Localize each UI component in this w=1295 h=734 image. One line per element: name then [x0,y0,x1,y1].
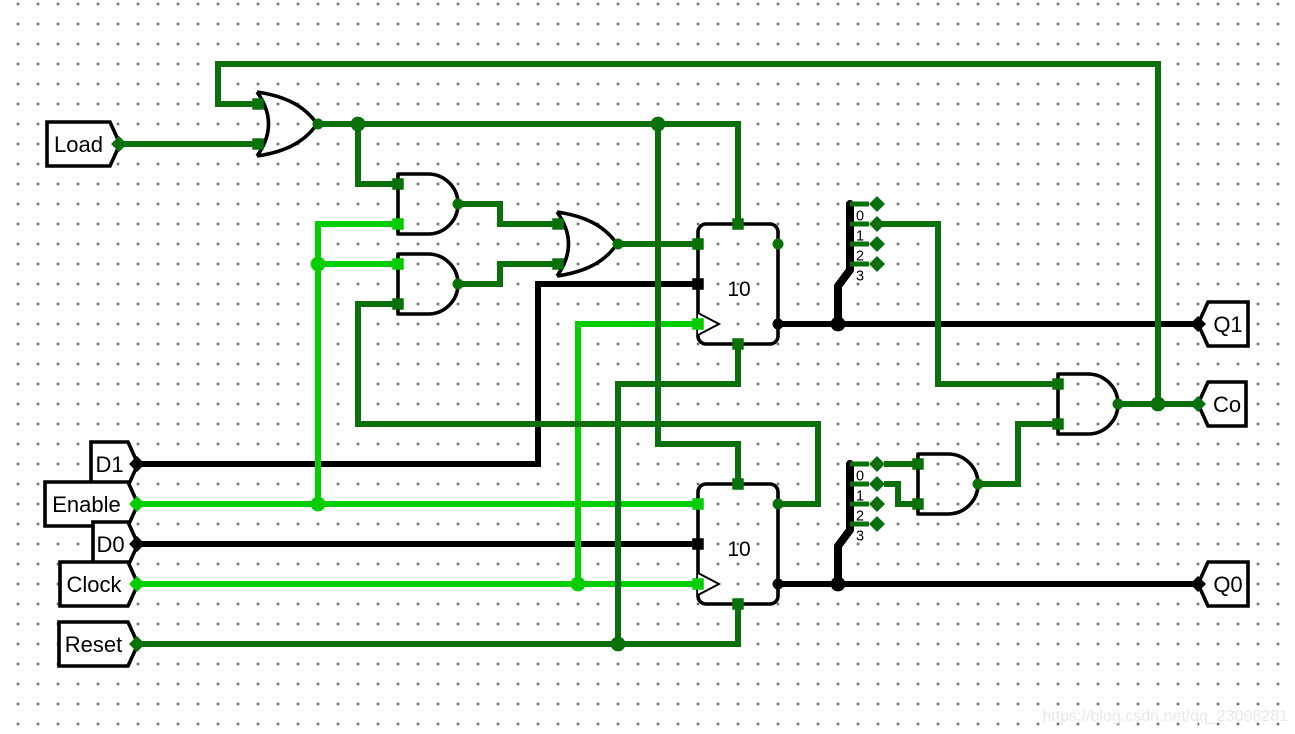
and-gate G3 [398,254,458,314]
svg-text:Clock: Clock [66,572,122,597]
pin square G3 in A [392,258,404,270]
svg-text:Q1: Q1 [1213,312,1242,337]
svg-text:Load: Load [54,132,103,157]
output pin G5 out [1113,399,1124,410]
pin square U2 load pin [732,478,744,490]
svg-text:Enable: Enable [52,492,121,517]
svg-text:3: 3 [856,529,864,545]
pin square G6 in A [912,458,924,470]
output pin U1 Q out [773,319,784,330]
output pin U2 carry out [773,499,784,510]
pin square G3 in B [392,298,404,310]
wire G1 output branch to U2 top pin [658,124,738,484]
splitter S2 arm 0 [850,456,885,472]
pin square U2 clock pin [692,578,704,590]
output pin Q0 [1190,562,1248,606]
junction Q0 bus / splitter S2 stem [831,577,846,592]
output pin Q1 [1190,302,1248,346]
wire G1 output branch to AND G2 top input [358,124,398,184]
splitter S2 arm 3 [850,516,885,532]
splitter S1 bit label 0 [856,209,864,225]
splitter S2 spine [838,464,850,584]
pin square G2 in B [392,218,404,230]
wire Q0 net: U2 Q output to Q0 tag [778,581,1198,587]
output pin U2 Q out [773,579,784,590]
junction G1 out / U2 branch [651,117,666,132]
wire Reset branch to U1 bottom pin [618,344,738,644]
and-gate G2 [398,174,458,234]
pin square U1 clear pin [732,338,744,350]
output pin G6 out [973,479,984,490]
wire splitter S1 bit1 to AND G5 top input [878,224,1058,384]
output pin G2 out [453,199,464,210]
junction Enable / G3 branch [311,257,326,272]
svg-text:https://blog.csdn.net/qq_23098: https://blog.csdn.net/qq_23098281 [1042,708,1288,725]
splitter S2 arm 2 [850,496,885,512]
output pin G4 out [613,239,624,250]
svg-text:Q0: Q0 [1213,572,1242,597]
counter U2 [698,484,778,604]
splitter S1 arm 3 [850,256,885,272]
wire Q1 net: U1 Q output to Q1 tag [778,321,1198,327]
wire Clock net main run [138,581,700,587]
pin square G4 in A [552,218,564,230]
splitter S2 bit label 2 [856,509,864,525]
splitter S2 bit label 0 [856,469,864,485]
wire G2 output to OR G4 top input [458,204,558,224]
output pin G3 out [453,279,464,290]
splitter S2 arm 1 [850,476,885,492]
wire U2 carry to AND G3 bottom input [358,304,818,504]
wire D1 net: tag to counter U1 D input [138,284,700,464]
splitter S1 bit label 2 [856,249,864,265]
counter U1 [698,224,778,344]
pin square U1 load pin [732,218,744,230]
pin square G1 in A [252,98,264,110]
wire G6 output to G5 bottom input [978,424,1058,484]
wire D0 net: tag to counter U2 D input [138,541,700,547]
and-gate G5 (carry out) [1058,374,1118,434]
junction G1 out / G2 branch [351,117,366,132]
junction Co feedback branch [1151,397,1166,412]
wire Clock branch to U1 clock input [578,324,700,584]
splitter S1 arm 2 [850,236,885,252]
svg-text:3: 3 [856,269,864,285]
splitter S1 spine [838,204,850,324]
wire Co net: G5 output to Co tag [1118,401,1198,407]
input pin Clock [60,562,145,606]
or-gate G1 (Load OR Co) [257,92,317,156]
pin square G4 in B [552,258,564,270]
counter U2 clock wedge [698,573,719,595]
output pin G1 out [313,119,324,130]
input pin D1 [91,442,145,486]
splitter S1 arm 0 [850,196,885,212]
wire G3 output to OR G4 bottom input [458,264,558,284]
pin square G6 in B [912,498,924,510]
or-gate G4 [557,212,617,276]
counter U1 clock wedge [698,313,719,335]
input pin Enable [45,482,145,526]
wire splitter S2 bit0 to AND G6 top input [884,461,918,467]
svg-text:10: 10 [727,278,750,301]
splitter S1 bit label 3 [856,269,864,285]
wire Enable net main run [138,501,700,507]
and-gate G6 (Q0 AND Q1) [918,454,978,514]
wire Enable branch up to AND G2 input [318,224,398,504]
pin square U2 data pin [692,538,704,550]
counter U2 value label 10 [727,538,750,561]
output pin Co [1190,382,1246,426]
wire Load net to OR G1 bottom input [118,141,258,147]
junction Q1 bus / splitter S1 stem [831,317,846,332]
splitter S2 bit label 1 [856,489,864,505]
wire splitter S2 bit1 to AND G6 bottom input [884,484,918,504]
pin square U2 enable pin [692,498,704,510]
svg-text:D0: D0 [96,532,124,557]
pin square G5 in B [1052,418,1064,430]
wire G1 output to U1 enable-top pin [318,124,738,224]
output pin U1 carry out [773,239,784,250]
wire Co feedback loop to OR G1 top input [218,64,1158,404]
svg-text:10: 10 [727,538,750,561]
input pin Reset [59,622,145,666]
svg-text:Co: Co [1213,392,1241,417]
wire Reset net to U2 bottom pin [138,604,738,644]
counter U1 value label 10 [727,278,750,301]
svg-text:Reset: Reset [65,632,122,657]
junction Clock vertical branch [571,577,586,592]
svg-text:D1: D1 [95,452,123,477]
pin square G2 in A [392,178,404,190]
pin square U1 data pin [692,278,704,290]
pin square U2 clear pin [732,598,744,610]
pin square U1 clock pin [692,318,704,330]
wire Enable branch to AND G3 input [318,261,398,267]
pin square G1 in B [252,138,264,150]
splitter S1 bit label 1 [856,229,864,245]
pin square U1 enable pin [692,238,704,250]
junction Enable vertical branch [311,497,326,512]
input pin D0 [93,522,145,566]
input pin Load [47,122,127,166]
junction Reset branch [611,637,626,652]
watermark text [1042,708,1288,725]
splitter S1 arm 1 [850,216,885,232]
pin square G5 in A [1052,378,1064,390]
splitter S2 bit label 3 [856,529,864,545]
wire G4 output to U1 left-top input [618,241,700,247]
